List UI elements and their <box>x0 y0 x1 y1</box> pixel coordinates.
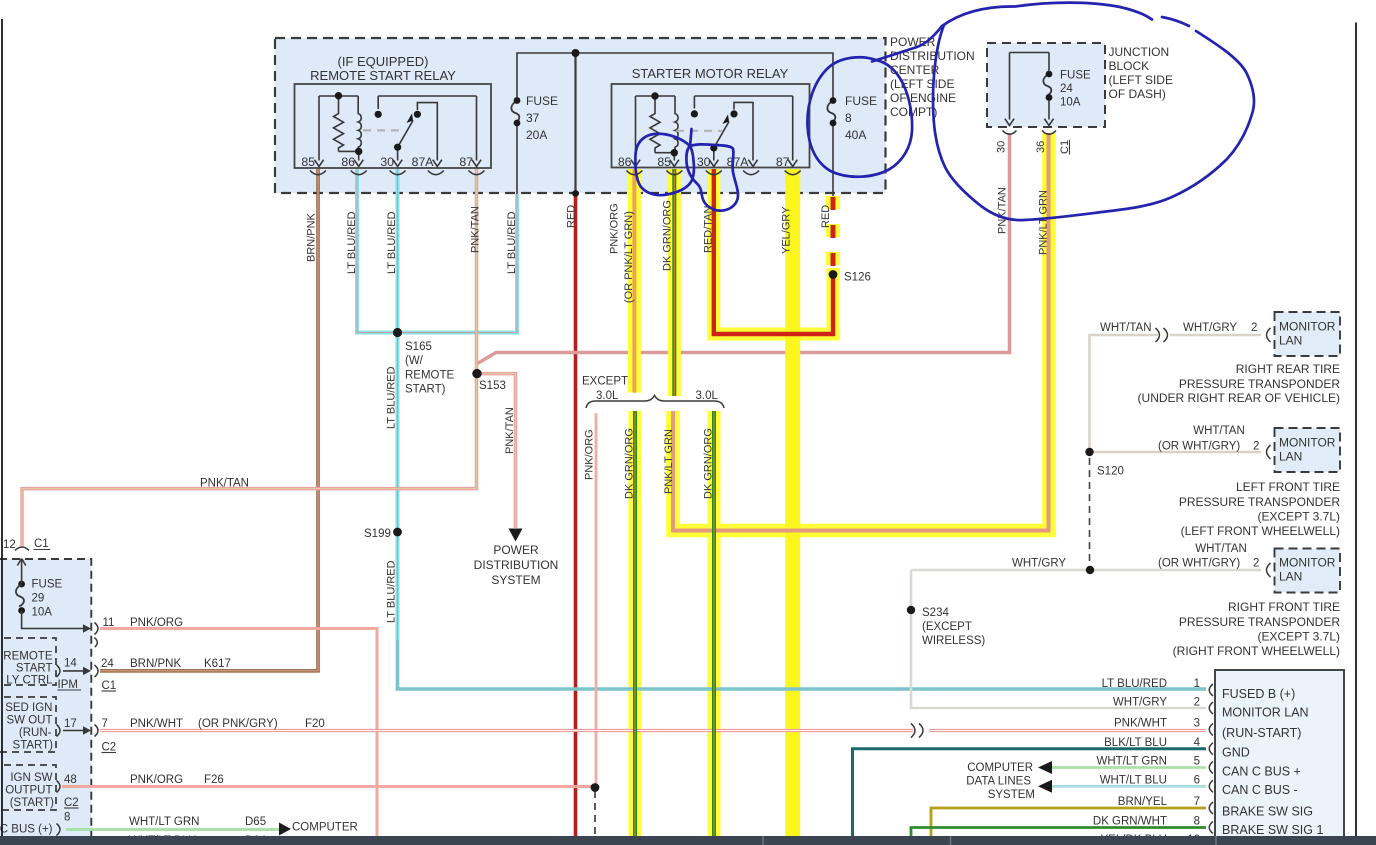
svg-text:LT BLU/RED: LT BLU/RED <box>1102 678 1167 690</box>
starter relay switch arm <box>714 122 729 149</box>
svg-text:SED IGN: SED IGN <box>5 702 52 714</box>
highlight on wire RED/TAN pin30 starter to S126 <box>714 169 833 334</box>
svg-text:S199: S199 <box>364 528 391 540</box>
fuse 29 <box>16 585 24 607</box>
fuse 8 <box>827 101 835 123</box>
arrow entering IPM box <box>21 560 23 584</box>
fuse 24 <box>1043 74 1051 96</box>
svg-text:(OR PNK/LT GRN): (OR PNK/LT GRN) <box>623 211 635 303</box>
pen tick above loop <box>690 129 692 147</box>
svg-text:WHT/LT GRN: WHT/LT GRN <box>129 816 200 828</box>
remote relay coil <box>358 96 361 151</box>
starter relay switch top rail (pin87) <box>694 96 792 161</box>
svg-text:LT BLU/RED: LT BLU/RED <box>386 560 398 623</box>
row 17 arrow <box>63 730 84 732</box>
module wire labels <box>1093 678 1168 845</box>
svg-text:POWER: POWER <box>493 543 539 557</box>
dashed black wire below splice at 595 <box>594 791 596 836</box>
wire PNK/TAN S153 branch to junction block pin 30 (under highlights) <box>477 133 1010 364</box>
wire WHT/GRY through S234 to module pin2 <box>911 570 1206 708</box>
svg-text:PNK/TAN: PNK/TAN <box>997 187 1009 234</box>
svg-text:14: 14 <box>64 658 77 670</box>
junction dot on monitor3 line <box>1086 566 1094 574</box>
svg-text:RED/TAN: RED/TAN <box>703 205 715 253</box>
svg-text:START): START) <box>13 740 54 752</box>
svg-text:2: 2 <box>1253 558 1259 570</box>
svg-text:C1: C1 <box>34 538 49 550</box>
wire WHT/LT GRN module pin5 <box>1052 766 1206 769</box>
fuse 8 wire to box edge <box>832 123 834 196</box>
monitor box pin brackets <box>1267 328 1271 342</box>
svg-text:LT BLU/RED: LT BLU/RED <box>386 211 398 274</box>
svg-text:LEFT FRONT TIRE: LEFT FRONT TIRE <box>1236 480 1340 494</box>
svg-text:DK GRN/ORG: DK GRN/ORG <box>703 428 715 499</box>
svg-text:86: 86 <box>618 155 632 169</box>
wire WHT/LT BLU module pin6 <box>1052 785 1206 788</box>
svg-text:IPM: IPM <box>58 679 78 691</box>
wire core DK GRN/ORG below brace left <box>633 411 637 845</box>
svg-text:DK GRN/ORG: DK GRN/ORG <box>624 428 636 499</box>
svg-text:WHT/GRY: WHT/GRY <box>1113 697 1167 709</box>
wire LT BLU/RED remote pin86 to S165 <box>357 169 398 333</box>
svg-text:CAN C BUS +: CAN C BUS + <box>1222 765 1301 779</box>
sub-box pushed ign sw out <box>0 697 56 752</box>
svg-text:40A: 40A <box>845 128 866 142</box>
svg-text:BRAKE SW SIG: BRAKE SW SIG <box>1222 805 1313 819</box>
svg-text:S126: S126 <box>844 272 871 284</box>
svg-text:10A: 10A <box>1060 97 1081 109</box>
svg-text:87A: 87A <box>727 155 750 169</box>
starter relay resistor <box>650 96 660 153</box>
svg-text:SW OUT: SW OUT <box>7 715 53 727</box>
bus wire fuse37 to fuse8 <box>517 53 833 100</box>
svg-text:OUTPUT: OUTPUT <box>5 785 52 797</box>
svg-text:COMPT): COMPT) <box>890 105 937 119</box>
svg-text:10A: 10A <box>32 607 53 619</box>
starter relay coil <box>675 96 678 153</box>
svg-text:RED: RED <box>820 205 832 228</box>
svg-text:PNK/ORG: PNK/ORG <box>609 203 621 254</box>
sub-box texts <box>0 651 54 836</box>
svg-text:WHT/GRY: WHT/GRY <box>1183 322 1237 334</box>
svg-text:8: 8 <box>64 812 70 824</box>
sub-box remote start rly ctrl <box>0 638 56 685</box>
svg-text:PNK/ORG: PNK/ORG <box>130 617 183 629</box>
wire WHT/TAN monitor 2 from S120 <box>1090 451 1262 454</box>
svg-text:48: 48 <box>64 774 77 786</box>
svg-text:PNK/WHT: PNK/WHT <box>130 718 183 730</box>
svg-text:29: 29 <box>32 593 45 605</box>
svg-text:DK GRN/ORG: DK GRN/ORG <box>662 200 674 271</box>
svg-text:LT BLU/RED: LT BLU/RED <box>506 211 518 274</box>
svg-text:30: 30 <box>697 155 711 169</box>
sub-box ign sw output <box>0 765 56 810</box>
remote relay 87A contact leg <box>417 103 437 161</box>
svg-text:(EXCEPT 3.7L): (EXCEPT 3.7L) <box>1258 630 1340 644</box>
starter relay 87A contact leg <box>734 102 753 160</box>
svg-text:MONITOR: MONITOR <box>1279 320 1336 334</box>
arrow to power distribution system <box>509 529 523 542</box>
wire YEL/GRY pin87 starter (thick yellow) <box>785 169 800 845</box>
svg-text:POWER: POWER <box>890 35 936 49</box>
svg-text:MONITOR: MONITOR <box>1279 556 1336 570</box>
wire core DK GRN/ORG starter pin85 <box>672 169 676 396</box>
svg-text:(IF EQUIPPED): (IF EQUIPPED) <box>337 54 428 69</box>
dashed wire S120 down <box>1089 458 1091 570</box>
wire LT BLU/RED remote pin30 to S165 <box>396 169 400 333</box>
hand drawn blue pen annotations <box>635 3 1254 220</box>
wire PNK/ORG IPM pin48 F26 <box>62 785 595 788</box>
svg-text:FUSED B (+): FUSED B (+) <box>1222 687 1295 701</box>
svg-text:30: 30 <box>996 141 1008 153</box>
svg-text:8: 8 <box>1194 816 1200 828</box>
svg-text:DK GRN/WHT: DK GRN/WHT <box>1093 816 1167 828</box>
svg-text:PRESSURE TRANSPONDER: PRESSURE TRANSPONDER <box>1179 495 1340 509</box>
svg-text:START: START <box>16 663 53 675</box>
starter relay pin30 leg <box>713 148 715 161</box>
svg-text:START): START) <box>405 384 446 396</box>
svg-text:BRN/PNK: BRN/PNK <box>130 658 181 670</box>
svg-text:WHT/LT GRN: WHT/LT GRN <box>1097 756 1168 768</box>
pen tail from fuse 8 loop to big loop <box>872 26 942 62</box>
svg-text:(OR WHT/GRY): (OR WHT/GRY) <box>1158 558 1240 570</box>
svg-text:PNK/TAN: PNK/TAN <box>504 407 516 454</box>
svg-text:PNK/ORG: PNK/ORG <box>584 429 596 480</box>
svg-text:BRAKE SW SIG 1: BRAKE SW SIG 1 <box>1222 823 1323 837</box>
svg-text:PRESSURE TRANSPONDER: PRESSURE TRANSPONDER <box>1179 377 1340 391</box>
svg-text:4: 4 <box>1194 737 1201 749</box>
remote relay coil top rail <box>319 95 358 97</box>
mechanical link dashed starter <box>676 130 722 132</box>
highlight on wire DK GRN/ORG pin85 starter <box>668 169 681 396</box>
row 14 arrow <box>63 670 84 672</box>
IPM module dashed box (left, cut off) <box>0 559 91 845</box>
svg-text:DATA LINES: DATA LINES <box>966 776 1031 788</box>
svg-text:24: 24 <box>1060 83 1073 95</box>
svg-text:S120: S120 <box>1097 466 1124 478</box>
relay pin arrows <box>314 119 1053 167</box>
svg-text:87: 87 <box>459 155 473 169</box>
starter relay pin86 wire <box>635 96 637 161</box>
wire RED from bus down whole page <box>574 53 576 194</box>
svg-text:(OR WHT/GRY): (OR WHT/GRY) <box>1158 441 1240 453</box>
bottom dark taskbar <box>0 836 1376 845</box>
switch arm arrowheads <box>406 113 414 124</box>
wire RED dashed from fuse 8 to S126 <box>831 197 836 268</box>
monitor LAN box 3 (right front transponder) <box>1275 549 1341 593</box>
module pin brackets <box>1209 684 1213 696</box>
computer data lines triangle (bottom left) <box>279 823 291 836</box>
svg-text:PNK/LT GRN: PNK/LT GRN <box>663 429 675 494</box>
junction block internal wires <box>1010 53 1050 120</box>
svg-text:85: 85 <box>657 155 671 169</box>
highlight on below-brace PNK/LT GRN to junction block pin 36 <box>673 133 1049 531</box>
bus junction dot <box>572 49 580 57</box>
left connector brackets <box>57 623 99 836</box>
starter relay coil top rail <box>636 95 676 97</box>
svg-text:YEL/GRY: YEL/GRY <box>781 206 793 254</box>
wire PNK/ORG below brace (EXCEPT 3.0L) <box>595 413 598 788</box>
svg-text:LT BLU/RED: LT BLU/RED <box>386 366 398 429</box>
svg-text:85: 85 <box>301 155 315 169</box>
svg-text:MONITOR: MONITOR <box>1279 436 1336 450</box>
wire DK GRN/WHT module pin8 <box>911 828 1206 845</box>
pen big loop gap arc <box>1162 17 1189 26</box>
svg-text:BRN/PNK: BRN/PNK <box>306 212 318 262</box>
svg-text:LAN: LAN <box>1279 450 1302 464</box>
svg-text:(LEFT FRONT WHEELWELL): (LEFT FRONT WHEELWELL) <box>1181 524 1340 538</box>
svg-text:37: 37 <box>526 111 540 125</box>
wire LT BLU/RED fuse37 to S165 <box>398 194 518 333</box>
wire BRN/PNK remote pin85 to IPM pin24 <box>100 169 318 671</box>
svg-text:2: 2 <box>1253 441 1259 453</box>
svg-text:17: 17 <box>64 718 77 730</box>
starter motor relay box <box>612 84 810 168</box>
svg-text:(EXCEPT 3.7L): (EXCEPT 3.7L) <box>1258 510 1340 524</box>
connector cups under relay pins <box>310 131 1056 175</box>
svg-text:7: 7 <box>1194 796 1200 808</box>
module pin numbers <box>1187 678 1200 845</box>
connector cups under junction block pins <box>1003 131 1017 135</box>
fuse terminal dots <box>514 97 521 104</box>
svg-text:S165: S165 <box>405 341 432 353</box>
splice S120 <box>1085 448 1093 456</box>
svg-text:LAN: LAN <box>1279 334 1302 348</box>
svg-text:EXCEPT: EXCEPT <box>582 376 628 388</box>
wire WHT/TAN monitor 1 <box>1090 335 1159 452</box>
right page border line <box>1355 23 1357 837</box>
remote start relay box <box>295 84 492 168</box>
computer data lines triangles <box>1038 761 1052 774</box>
pen loop around fuse 8 <box>807 57 912 176</box>
svg-text:IGN SW: IGN SW <box>10 772 52 784</box>
fuse 29 wire to pin 11 with arrow <box>22 611 84 629</box>
splice S165 <box>393 328 402 337</box>
svg-text:OF DASH): OF DASH) <box>1109 87 1166 101</box>
svg-text:WHT/LT BLU: WHT/LT BLU <box>1100 775 1167 787</box>
svg-text:3.0L: 3.0L <box>596 390 619 402</box>
svg-text:COMPUTER: COMPUTER <box>292 822 358 834</box>
left page border line <box>1 19 3 836</box>
svg-text:PNK/TAN: PNK/TAN <box>470 206 482 253</box>
svg-text:FUSE: FUSE <box>845 94 877 108</box>
svg-text:(RIGHT FRONT WHEELWELL): (RIGHT FRONT WHEELWELL) <box>1173 644 1340 658</box>
monitor LAN box 1 (right rear transponder) <box>1275 312 1341 356</box>
svg-text:12: 12 <box>3 539 16 551</box>
svg-text:BRN/YEL: BRN/YEL <box>1118 796 1168 808</box>
wire PNK/TAN remote pin87 to S153 to IPM pin12 <box>22 169 477 546</box>
fuse 37 <box>511 101 519 123</box>
remote relay pin85 wire <box>318 96 320 161</box>
splice S234 <box>907 606 915 614</box>
wire PNK/TAN S153 branch to power distribution system <box>479 374 516 528</box>
svg-text:(W/: (W/ <box>405 355 424 367</box>
svg-text:PRESSURE TRANSPONDER: PRESSURE TRANSPONDER <box>1179 615 1340 629</box>
svg-text:REMOTE START RELAY: REMOTE START RELAY <box>310 68 456 83</box>
wire core RED/TAN starter pin30 up to S126 <box>714 169 833 334</box>
splice S126 <box>829 270 838 279</box>
svg-text:WHT/TAN: WHT/TAN <box>1195 543 1247 555</box>
svg-text:PNK/LT GRN: PNK/LT GRN <box>1038 190 1050 255</box>
power distribution center dashed box <box>275 38 886 193</box>
break symbol on PNK/WHT line <box>911 724 915 738</box>
svg-text:20A: 20A <box>526 128 547 142</box>
svg-text:WHT/TAN: WHT/TAN <box>1100 322 1152 334</box>
wire BRN/YEL module pin7 <box>931 808 1206 845</box>
remote relay resistor <box>334 96 344 151</box>
svg-text:86: 86 <box>341 155 355 169</box>
svg-text:LT BLU/RED: LT BLU/RED <box>346 211 358 274</box>
wire BLK/LT BLU module pin4 <box>853 749 1207 845</box>
svg-text:(RUN-: (RUN- <box>19 727 52 739</box>
highlight on wire PNK/ORG pin86 starter <box>628 169 641 393</box>
power distribution center label <box>890 35 975 119</box>
svg-text:LAN: LAN <box>1279 570 1302 584</box>
svg-text:RIGHT REAR TIRE: RIGHT REAR TIRE <box>1236 362 1340 376</box>
svg-text:FUSE: FUSE <box>32 579 63 591</box>
relay pin number labels <box>301 155 789 169</box>
svg-text:(LEFT SIDE: (LEFT SIDE <box>1109 73 1173 87</box>
wire core PNK/ORG (OR PNK/LT GRN) starter pin86 <box>632 169 636 393</box>
svg-text:STARTER MOTOR RELAY: STARTER MOTOR RELAY <box>632 66 789 81</box>
svg-text:DISTRIBUTION: DISTRIBUTION <box>474 558 559 572</box>
fuse 37 wire to box edge <box>516 123 518 194</box>
highlight on below-brace DK GRN/ORG right <box>708 411 721 845</box>
splice S199 <box>393 528 402 537</box>
connector bracket at pin 12 <box>15 547 29 551</box>
svg-text:PNK/ORG: PNK/ORG <box>130 774 183 786</box>
svg-text:JUNCTION: JUNCTION <box>1109 45 1170 59</box>
wire WHT/GRY monitor 3 line <box>911 569 1261 572</box>
svg-text:S234: S234 <box>922 607 949 619</box>
right front transponder text <box>1173 600 1341 658</box>
wire core DK GRN/ORG below brace right <box>712 411 716 845</box>
svg-text:F20: F20 <box>305 718 325 730</box>
highlight on below-brace DK GRN/ORG left <box>629 411 642 845</box>
svg-text:RIGHT FRONT TIRE: RIGHT FRONT TIRE <box>1228 600 1340 614</box>
svg-text:36: 36 <box>1035 141 1047 153</box>
remote relay switch top rail (pin87) <box>378 96 476 161</box>
svg-text:8: 8 <box>845 111 852 125</box>
svg-text:LY CTRL: LY CTRL <box>6 675 53 687</box>
svg-text:SYSTEM: SYSTEM <box>988 789 1035 801</box>
tire pressure monitor module box (bottom right) <box>1215 670 1344 845</box>
svg-text:C2: C2 <box>64 797 79 809</box>
svg-text:WIRELESS): WIRELESS) <box>922 635 985 647</box>
svg-text:2: 2 <box>1251 322 1257 334</box>
wire WHT/LT GRN D65 <box>66 828 279 831</box>
remote relay switch arm <box>398 121 413 148</box>
svg-text:GND: GND <box>1222 746 1250 760</box>
svg-text:C2: C2 <box>102 742 117 754</box>
svg-text:FUSE: FUSE <box>526 94 558 108</box>
svg-text:2: 2 <box>1194 697 1200 709</box>
svg-text:F26: F26 <box>204 774 224 786</box>
svg-text:REMOTE: REMOTE <box>405 370 455 382</box>
splice at pin48 wire and dashed wire <box>591 783 600 792</box>
svg-text:7: 7 <box>102 718 108 730</box>
svg-text:87A: 87A <box>412 155 435 169</box>
svg-text:C BUS (+): C BUS (+) <box>0 824 53 836</box>
svg-text:(EXCEPT: (EXCEPT <box>922 621 972 633</box>
break symbol on WHT/TAN line <box>911 328 1271 834</box>
svg-text:BLK/LT BLU: BLK/LT BLU <box>1104 737 1167 749</box>
wire LT BLU/RED S165 to S199 to module pin1 <box>396 333 400 641</box>
svg-text:BLOCK: BLOCK <box>1109 59 1150 73</box>
svg-text:PNK/TAN: PNK/TAN <box>200 478 249 490</box>
left front transponder text <box>1179 480 1340 538</box>
remote relay pin30 leg <box>397 147 399 160</box>
pen loop around starter relay pins 30/87A <box>686 144 738 210</box>
right rear transponder text <box>1138 362 1341 405</box>
svg-text:(UNDER RIGHT REAR OF VEHICLE): (UNDER RIGHT REAR OF VEHICLE) <box>1138 391 1340 405</box>
svg-text:30: 30 <box>380 155 394 169</box>
wire core PNK/LT GRN below brace to junction pin 36 <box>673 133 1049 531</box>
svg-text:(START): (START) <box>10 797 54 809</box>
mechanical link dashed remote <box>363 129 405 131</box>
svg-text:3: 3 <box>1194 718 1200 730</box>
svg-text:1: 1 <box>1194 678 1200 690</box>
svg-text:D65: D65 <box>245 816 266 828</box>
svg-text:(RUN-START): (RUN-START) <box>1222 726 1301 740</box>
svg-text:WHT/TAN: WHT/TAN <box>1193 425 1245 437</box>
starter relay coil bottom to pin85 <box>655 153 674 161</box>
svg-text:OF ENGINE: OF ENGINE <box>890 91 956 105</box>
computer data lines system label <box>966 762 1035 801</box>
svg-text:SYSTEM: SYSTEM <box>491 573 540 587</box>
wire PNK/ORG IPM pin11 <box>100 629 377 845</box>
svg-text:MONITOR LAN: MONITOR LAN <box>1222 706 1309 720</box>
svg-text:WHT/GRY: WHT/GRY <box>1012 558 1066 570</box>
svg-text:6: 6 <box>1194 775 1200 787</box>
svg-text:K617: K617 <box>204 658 231 670</box>
brace EXCEPT 3.0L / 3.0L <box>586 396 724 409</box>
pen loop around starter relay pin 85 <box>635 134 694 195</box>
svg-text:87: 87 <box>776 155 790 169</box>
svg-text:COMPUTER: COMPUTER <box>967 762 1033 774</box>
splice S153 <box>472 369 481 378</box>
junction block dashed box <box>987 43 1105 127</box>
relay contact and coil dots <box>335 92 342 99</box>
highlight dashed on fuse8 RED wire <box>826 196 840 268</box>
pen big loop around junction block (body) <box>933 25 1254 220</box>
wire PNK/WHT (OR PNK/GRY) F20 long line to module pin3 <box>100 729 913 732</box>
svg-text:S153: S153 <box>479 380 506 392</box>
monitor LAN box 2 (left front transponder) <box>1275 428 1341 472</box>
svg-text:CAN C BUS -: CAN C BUS - <box>1222 783 1298 797</box>
module internal labels <box>1222 687 1323 837</box>
svg-text:(OR PNK/GRY): (OR PNK/GRY) <box>198 718 278 730</box>
dot at box boundary on RED wire <box>572 190 579 197</box>
junction block label <box>1109 45 1173 101</box>
svg-text:3.0L: 3.0L <box>696 390 719 402</box>
svg-text:5: 5 <box>1194 756 1200 768</box>
svg-text:24: 24 <box>101 658 114 670</box>
remote relay coil bottom to pin86 <box>339 151 359 160</box>
svg-text:REMOTE: REMOTE <box>3 651 53 663</box>
svg-text:PNK/WHT: PNK/WHT <box>1114 718 1167 730</box>
svg-text:RED: RED <box>566 205 578 228</box>
pen big loop around junction block (top) <box>942 3 1152 26</box>
svg-text:FUSE: FUSE <box>1060 70 1091 82</box>
svg-text:C1: C1 <box>102 680 117 692</box>
svg-text:11: 11 <box>103 617 115 629</box>
